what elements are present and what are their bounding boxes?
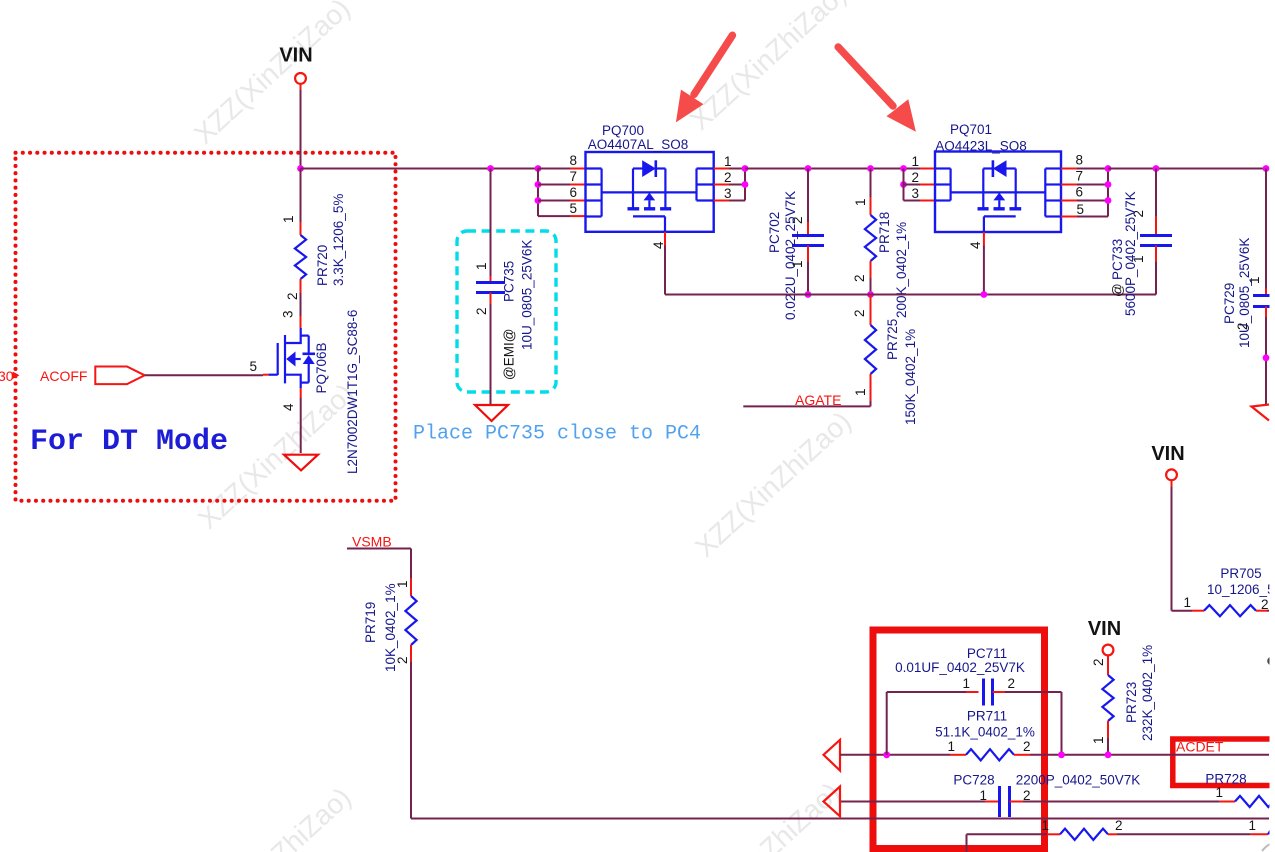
svg-text:1: 1: [1091, 736, 1106, 744]
wire VSMB: [347, 549, 411, 579]
transistor PQ700 pin4 stub: [651, 232, 666, 249]
capacitor PC702: [792, 236, 824, 246]
resistor PR719 labels: [363, 583, 398, 672]
resistor PR723: [1102, 675, 1113, 721]
capacitor PC711 labels: [895, 646, 1025, 675]
wire PQ701 pin8: [1061, 168, 1108, 170]
power port VIN (bottom): [1088, 618, 1121, 663]
svg-text:1: 1: [853, 198, 868, 206]
wire PQ700 pin8: [538, 168, 586, 170]
capacitor PC729 pin2 stub: [1235, 307, 1266, 331]
wire bottom branch right: [1117, 833, 1251, 835]
svg-text:PC702: PC702: [767, 212, 782, 253]
node PR718 top junction: [867, 165, 874, 172]
svg-text:6: 6: [569, 185, 577, 200]
capacitor PC729 labels: [1222, 238, 1252, 348]
annotation box: cyan dashed around PC735: [457, 231, 556, 392]
svg-text:7: 7: [569, 169, 577, 184]
capacitor PC735 labels: [502, 240, 535, 380]
resistor PR705: [1204, 605, 1256, 616]
node PQ701 pin6 junction: [1105, 197, 1112, 204]
resistor PR723 pin2 stub: [1091, 658, 1108, 675]
capacitor PC711 pin2 stub: [993, 676, 1016, 692]
wire PC702 to bottom rail: [807, 262, 809, 295]
svg-text:150K_0402_1%: 150K_0402_1%: [903, 329, 918, 425]
svg-text:PC711: PC711: [967, 646, 1007, 661]
capacitor PC702 pin2 stub: [790, 216, 808, 235]
svg-text:232K_0402_1%: 232K_0402_1%: [1140, 645, 1155, 741]
net label VSMB: [352, 534, 392, 550]
wire PQ700 pin1: [714, 168, 745, 170]
wire VIN continues down to PR720: [300, 169, 302, 223]
svg-text:1: 1: [1041, 818, 1049, 833]
svg-text:3.3K_1206_5%: 3.3K_1206_5%: [331, 194, 346, 286]
wire PR705 right: [1267, 610, 1269, 612]
wire PQ700 left vertical: [537, 169, 539, 217]
svg-text:PR711: PR711: [967, 709, 1007, 724]
svg-text:AGATE: AGATE: [795, 392, 841, 408]
svg-text:PR718: PR718: [877, 212, 892, 253]
svg-text:2: 2: [724, 170, 732, 185]
svg-text:3: 3: [281, 310, 296, 318]
resistor (bottom) pin1 stub: [1041, 818, 1060, 834]
node PQ701 pin2 junction: [900, 181, 907, 188]
svg-text:2: 2: [1115, 818, 1123, 833]
power port VIN (right): [1151, 443, 1184, 487]
transistor PQ706B: [269, 328, 315, 388]
resistor PR725 labels: [885, 319, 918, 425]
svg-text:VIN: VIN: [279, 45, 312, 67]
wire PQ701 pin7: [1061, 184, 1108, 186]
svg-text:3: 3: [911, 186, 919, 201]
wire PQ700 pin7: [538, 184, 586, 186]
wire PQ701 pin3: [904, 200, 936, 202]
resistor PR711 labels: [935, 709, 1035, 740]
svg-text:1: 1: [1131, 255, 1146, 263]
resistor PR718 labels: [877, 212, 909, 318]
wire PQ700 pin6: [538, 200, 586, 202]
svg-text:AO4407AL_SO8: AO4407AL_SO8: [588, 137, 689, 152]
svg-text:VSMB: VSMB: [352, 534, 392, 550]
svg-text:4: 4: [651, 241, 666, 249]
power port VIN (top): [279, 45, 312, 91]
resistor PR725: [865, 325, 876, 374]
svg-text:ACDET: ACDET: [1176, 739, 1224, 755]
svg-text:7: 7: [1075, 169, 1083, 184]
svg-text:2: 2: [1091, 658, 1106, 666]
svg-text:1: 1: [724, 154, 732, 169]
input connector arrow (rail 1): [824, 740, 841, 771]
resistor (bottom): [1060, 829, 1108, 840]
svg-text:2: 2: [474, 307, 489, 315]
resistor PR711: [966, 749, 1014, 760]
node PQ701 pin8 junction: [1105, 165, 1112, 172]
wire PQ701 pin2: [904, 184, 936, 186]
svg-text:1: 1: [962, 676, 970, 691]
transistor PQ706B labels: [314, 310, 360, 474]
wire down to PC729: [1265, 169, 1267, 289]
wire PC735 to ground: [490, 304, 492, 404]
node PQ700 pin7 junction: [535, 181, 542, 188]
svg-text:2: 2: [911, 170, 919, 185]
svg-text:2: 2: [395, 656, 410, 664]
transistor PQ700 labels: [588, 123, 689, 152]
svg-text:1: 1: [979, 788, 987, 803]
callout arrow to PQ701: [838, 47, 916, 132]
resistor PR718 pin1 stub: [853, 197, 871, 215]
transistor PQ706B pin5 gate stub: [249, 359, 268, 375]
svg-text:3: 3: [724, 186, 732, 201]
resistor PR720: [295, 235, 306, 279]
ground (below PQ706B): [284, 455, 318, 471]
resistor PR725 pin1 stub: [853, 374, 871, 401]
resistor PR711 pin1 stub: [947, 739, 966, 755]
node PQ701 pin4 junction: [981, 291, 988, 298]
capacitor PC733 labels: [1110, 191, 1138, 316]
annotation text: For DT Mode: [30, 425, 228, 459]
node PQ701 pin7 junction: [1105, 181, 1112, 188]
svg-text:5600P_0402_25V7K: 5600P_0402_25V7K: [1123, 191, 1138, 316]
svg-text:For DT Mode: For DT Mode: [30, 425, 228, 459]
off-page connector (right edge): [1252, 405, 1270, 421]
wire PQ701 pin6: [1061, 200, 1108, 202]
svg-text:8: 8: [569, 153, 577, 168]
transistor PQ701 pin4 stub: [968, 232, 984, 249]
transistor PQ706B pin3 stub: [281, 310, 301, 328]
resistor PR705 pin2 stub: [1256, 597, 1269, 612]
wire PQ700 pin3: [714, 200, 745, 202]
resistor PR728 labels: [1205, 772, 1246, 787]
pin numbers PQ700 left: [569, 153, 577, 216]
resistor PR723 pin1 stub: [1091, 721, 1108, 744]
capacitor PC711: [984, 679, 993, 706]
capacitor PC733 pin2 stub: [1131, 210, 1156, 235]
resistor PR728: [1235, 796, 1275, 807]
node VIN junction: [297, 165, 304, 172]
resistor (bottom) pin2 stub: [1108, 818, 1123, 834]
wire top rail right: [1108, 168, 1266, 170]
svg-text:0.01UF_0402_25V7K: 0.01UF_0402_25V7K: [895, 660, 1025, 675]
svg-text:AO4423L_SO8: AO4423L_SO8: [935, 139, 1027, 154]
node PC711 left junction: [883, 751, 890, 758]
resistor PR719: [405, 596, 416, 645]
svg-text:2: 2: [285, 292, 300, 300]
annotation box: red highlight around PC711/PR711/PC728: [873, 630, 1045, 849]
wire ACOFF to gate: [145, 374, 263, 376]
wire PQ700 right vertical: [744, 169, 746, 201]
capacitor PC728: [1000, 786, 1010, 817]
svg-text:PQ706B: PQ706B: [314, 342, 329, 393]
svg-text:PR723: PR723: [1124, 682, 1139, 723]
svg-text:2: 2: [1023, 739, 1031, 754]
wire rail2: [840, 801, 1220, 803]
svg-text:1: 1: [1215, 785, 1223, 800]
resistor PR719 pin2 stub: [395, 645, 411, 664]
svg-text:PR720: PR720: [315, 245, 330, 286]
capacitor PC735 pin2 stub: [474, 293, 491, 316]
node PC702 junction: [805, 165, 812, 172]
svg-text:1: 1: [281, 215, 296, 223]
capacitor PC735: [476, 283, 505, 293]
wire down to PC735: [490, 169, 492, 277]
wire PC733 to bottom rail: [1155, 262, 1157, 295]
capacitor PC729: [1253, 296, 1275, 307]
svg-text:0.022U_0402_25V7K: 0.022U_0402_25V7K: [783, 191, 798, 320]
wire down to PC733: [1155, 169, 1157, 217]
wire PR725 to AGATE: [743, 401, 870, 406]
svg-text:PR725: PR725: [885, 319, 900, 360]
resistor PR719 pin1 stub: [395, 578, 411, 596]
annotation box: For DT Mode region (red dotted): [16, 153, 396, 501]
wire bottom rail: [665, 294, 1156, 296]
transistor PQ706B pin4 stub: [281, 388, 301, 411]
wire PQ706B source to ground: [300, 398, 302, 453]
ground (below PC735): [475, 405, 508, 421]
node PQ700 left junction: [535, 165, 542, 172]
svg-text:2: 2: [1008, 676, 1016, 691]
wire VIN2 down: [1172, 487, 1193, 611]
resistor PR718 pin2 stub: [852, 261, 871, 282]
wire PC729 down: [1265, 317, 1267, 405]
svg-text:PQ700: PQ700: [602, 123, 644, 138]
svg-text:5: 5: [249, 359, 257, 374]
node PQ700 pin1 junction: [742, 165, 749, 172]
wire PR723 to rail1: [1107, 738, 1109, 755]
resistor PR728 pin1 stub: [1215, 785, 1235, 802]
svg-text:Place PC735 close to PC4: Place PC735 close to PC4: [413, 423, 701, 446]
node PR723 junction: [1105, 751, 1112, 758]
svg-text:@EMI@: @EMI@: [502, 329, 517, 380]
wire PR719 down to rail3: [411, 662, 1269, 819]
wire PQ700 pin2: [714, 184, 745, 186]
capacitor PC711 pin1 stub: [962, 676, 978, 692]
callout arrow to PQ700: [676, 35, 733, 122]
svg-text:4: 4: [968, 241, 983, 249]
net label ACDET: [1176, 739, 1224, 755]
wire rail1: [840, 754, 1269, 756]
pin numbers PQ700 right: [724, 154, 732, 201]
capacitor PC702 pin1 stub: [790, 246, 808, 269]
wire PQ701 pin5: [1061, 216, 1108, 218]
svg-text:PR719: PR719: [363, 602, 378, 643]
annotation text: Place PC735 close to PC4: [413, 423, 701, 446]
svg-text:PC728: PC728: [953, 773, 994, 788]
svg-text:6: 6: [1075, 185, 1083, 200]
wire PC711 right branch: [1005, 692, 1062, 755]
annotation box: red highlight ACDET: [1173, 739, 1275, 786]
svg-text:PQ701: PQ701: [950, 122, 992, 137]
wire PQ701 pin1 stub: [920, 168, 935, 170]
gray pad (right edge): [1267, 657, 1275, 666]
capacitor PC733: [1140, 236, 1172, 246]
resistor PR725 pin2 stub: [852, 295, 871, 326]
svg-text:PC735: PC735: [502, 261, 517, 302]
pin numbers PQ701 left: [911, 154, 919, 201]
node PC735 junction: [487, 165, 494, 172]
pin numbers PQ701 right: [1075, 153, 1084, 218]
wire PC711 left branch: [887, 692, 966, 755]
net label ACOFF: [40, 367, 145, 385]
net label AGATE: [795, 392, 841, 408]
svg-text:2200P_0402_50V7K: 2200P_0402_50V7K: [1016, 773, 1141, 788]
node PQ700 pin2 junction: [742, 181, 749, 188]
transistor PQ701 labels: [935, 122, 1027, 154]
svg-text:5: 5: [1076, 202, 1084, 217]
wire top rail to PQ701: [745, 168, 920, 170]
capacitor PC728 pin2 stub: [1010, 788, 1031, 803]
svg-text:1: 1: [911, 154, 919, 169]
node PQ700 pin6 junction: [535, 197, 542, 204]
svg-text:2: 2: [852, 309, 867, 317]
wire down to PR718: [870, 169, 872, 198]
svg-text:51.1K_0402_1%: 51.1K_0402_1%: [935, 725, 1035, 740]
svg-text:2: 2: [1023, 788, 1031, 803]
resistor PR705 labels: [1207, 566, 1275, 597]
svg-text:30: 30: [0, 368, 14, 384]
wire PR718 to bottom rail: [870, 278, 872, 295]
node PR718 bottom junction: [867, 291, 874, 298]
wire PQ700 pin4 down: [664, 246, 666, 295]
svg-text:1: 1: [790, 260, 805, 268]
svg-text:5: 5: [569, 201, 577, 216]
svg-text:1: 1: [1183, 595, 1191, 610]
wire PR720 to PQ706B: [300, 293, 302, 316]
node right-edge junction: [1263, 354, 1270, 361]
svg-text:10_1206_5%: 10_1206_5%: [1207, 582, 1275, 597]
svg-text:1: 1: [1248, 818, 1256, 833]
svg-text:200K_0402_1%: 200K_0402_1%: [894, 222, 909, 318]
capacitor PC702 labels: [767, 191, 798, 320]
capacitor PC728 labels: [953, 773, 1140, 788]
off-page connector 30 (left edge): [0, 368, 20, 384]
svg-text:PR705: PR705: [1220, 566, 1261, 581]
svg-text:2: 2: [852, 274, 867, 282]
svg-text:PC729: PC729: [1222, 283, 1237, 324]
resistor PR711 pin2 stub: [1014, 739, 1031, 755]
node PC711 right junction: [1058, 751, 1065, 758]
svg-text:8: 8: [1075, 153, 1083, 168]
svg-text:4: 4: [281, 403, 296, 411]
resistor PR718: [865, 215, 876, 261]
wire PQ700 pin5: [538, 215, 586, 217]
transistor PQ700 (AO4407AL_SO8 package): [586, 152, 714, 232]
wire down to PC702: [807, 169, 809, 223]
node PC702 bottom junction: [805, 291, 812, 298]
input connector arrow (rail 2): [824, 787, 841, 817]
transistor PQ701 (AO4423L_SO8 package): [935, 152, 1061, 233]
capacitor PC728 pin1 stub: [979, 788, 999, 803]
node PC733 top junction: [1153, 165, 1160, 172]
wire PQ701 pin4 down: [983, 246, 985, 295]
svg-text:10U_0805_25V6K: 10U_0805_25V6K: [520, 240, 535, 350]
svg-text:ACOFF: ACOFF: [40, 368, 87, 384]
svg-text:2: 2: [1235, 322, 1250, 330]
wire VIN top rail: [301, 168, 571, 170]
node PQ701 pin1 junction: [900, 165, 907, 172]
component stub (bottom right edge): [1248, 818, 1272, 834]
svg-text:VIN: VIN: [1088, 618, 1121, 640]
wire PQ701 left vertical: [903, 169, 905, 201]
resistor PR720 pin2 stub: [285, 279, 301, 300]
wire VIN vertical to junction: [300, 90, 302, 169]
svg-text:VIN: VIN: [1151, 443, 1184, 465]
svg-text:PR728: PR728: [1205, 772, 1246, 787]
capacitor PC729 pin1 stub: [1247, 276, 1266, 295]
capacitor PC735 pin1 stub: [474, 262, 491, 282]
svg-text:1: 1: [474, 262, 489, 270]
wire PQ701 right vertical: [1107, 169, 1109, 217]
svg-text:1: 1: [947, 739, 955, 754]
svg-text:L2N7002DW1T1G_SC88-6: L2N7002DW1T1G_SC88-6: [345, 310, 360, 474]
svg-text:10U_0805_25V6K: 10U_0805_25V6K: [1237, 238, 1252, 348]
capacitor PC733 pin1 stub: [1131, 246, 1156, 264]
resistor PR720 pin1 stub: [281, 215, 301, 235]
svg-text:1: 1: [853, 388, 868, 396]
resistor PR720 labels: [315, 194, 346, 286]
node PC729 top junction: [1263, 165, 1270, 172]
resistor PR723 labels: [1124, 645, 1155, 741]
resistor PR705 pin1 stub: [1183, 595, 1204, 611]
wire bottom branch: [967, 834, 1048, 852]
